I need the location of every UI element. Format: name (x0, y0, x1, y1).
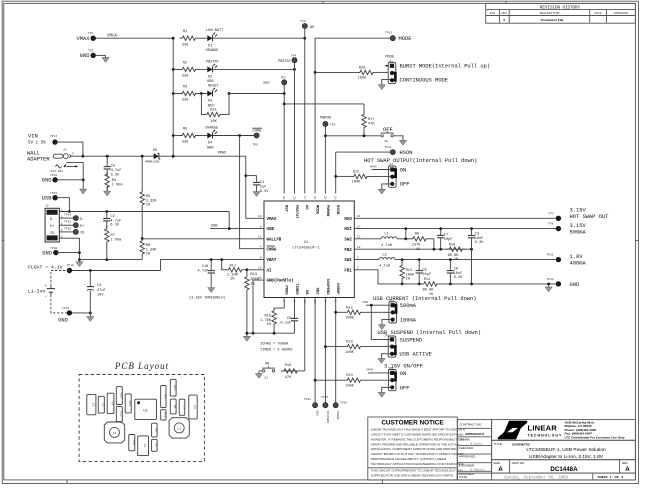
wire U1 GND paddle to ground rail (252, 280, 264, 335)
svg-text:DWG NO.: DWG NO. (512, 461, 526, 465)
svg-text:DATE:: DATE: (459, 475, 468, 479)
wire AI node to U1 pin 16 (246, 268, 265, 271)
wire TIMER pin to C6 (294, 298, 296, 319)
svg-text:TP20: TP20 (50, 247, 57, 250)
svg-text:R1: R1 (183, 30, 187, 34)
svg-text:OB2: OB2 (315, 288, 319, 296)
LED D4 CHARGE green (199, 127, 218, 151)
svg-text:R16: R16 (119, 393, 122, 399)
svg-text:6.3V: 6.3V (111, 173, 120, 177)
svg-text:SUPPLIED FOR USE WITH LINEAR T: SUPPLIED FOR USE WITH LINEAR TECHNOLOGY … (371, 474, 455, 478)
wire J2 GND pin to ground rail (59, 238, 81, 261)
svg-text:1: 1 (610, 475, 612, 479)
op IC U1 LTC3455EUF-1 body (264, 201, 354, 298)
J1 sleeve switch contact PJ1-022 (51, 162, 84, 172)
svg-text:CIRCUIT BOARD LAYOUT MAY SIGNI: CIRCUIT BOARD LAYOUT MAY SIGNIFICANTLY A… (371, 452, 464, 456)
PCB part R9 (170, 399, 176, 414)
svg-text:330: 330 (182, 43, 188, 47)
ground symbol USB rail (76, 260, 83, 267)
svg-text:TP5: TP5 (281, 77, 287, 80)
svg-text:SUSPEND: SUSPEND (326, 411, 329, 424)
wire TP2 to ground (96, 54, 106, 56)
svg-text:SW1: SW1 (344, 259, 352, 263)
test point TP3 AO (300, 20, 314, 30)
wire TP17 to adapter line (58, 142, 85, 158)
svg-text:FB2: FB2 (344, 249, 352, 253)
svg-text:SUSPEND: SUSPEND (325, 279, 329, 296)
U1 right pin names (344, 218, 352, 274)
svg-text:SW2: SW2 (344, 238, 352, 242)
PCB part R4 (152, 439, 158, 451)
test point TP22 OB2 (304, 398, 319, 416)
contract and approvals block (457, 420, 491, 480)
svg-text:PJ1-022: PJ1-022 (51, 170, 64, 173)
svg-text:AI: AI (267, 269, 272, 273)
battery Li-Ion (28, 271, 69, 313)
svg-text:3: 3 (293, 300, 296, 302)
resistor R18 47K (281, 364, 305, 380)
resistor R5 330 (173, 128, 198, 145)
svg-text:DC1448A: DC1448A (550, 466, 578, 473)
diode D5 MBRM120E (145, 149, 160, 164)
svg-text:C4: C4 (97, 284, 101, 288)
jumper JP6 3.15V enable (388, 368, 396, 391)
test point TP4 PBSTAT (278, 54, 297, 64)
jumper JP5 suspend select (384, 335, 396, 358)
svg-text:R7: R7 (110, 234, 114, 238)
test point TP24 USBHP (333, 401, 347, 419)
svg-text:47uF: 47uF (97, 289, 106, 293)
svg-text:USB: USB (363, 301, 369, 304)
svg-text:C5: C5 (91, 403, 94, 407)
PCB layout title (114, 361, 169, 371)
wire L1 output node to 3.15V rail (404, 229, 407, 241)
svg-text:DESCRIPTION: DESCRIPTION (540, 12, 560, 15)
wire JP6 pin3 to ground (382, 387, 390, 390)
svg-text:15: 15 (334, 196, 337, 200)
resistor R8 1.24K 1% (140, 238, 157, 260)
wire PWRON row to switch S2 (325, 134, 380, 137)
svg-text:HSON: HSON (400, 150, 413, 156)
svg-text:VMAX: VMAX (366, 369, 373, 372)
svg-text:CONTINUOUS MODE: CONTINUOUS MODE (400, 77, 449, 83)
svg-text:S2: S2 (385, 140, 389, 143)
PCB layout outline (79, 375, 204, 462)
LED D2 PBSTAT green (199, 60, 220, 84)
svg-text:ORANGE: ORANGE (206, 49, 219, 53)
ground symbol at JP5 (378, 356, 385, 363)
wire D2 cathode to PBSTAT bus (213, 68, 296, 71)
capacitor C8 10pF (416, 260, 431, 286)
U1 bottom pin names (284, 279, 340, 296)
svg-text:TIMER = 3 HOURS: TIMER = 3 HOURS (260, 348, 292, 352)
svg-text:C2: C2 (110, 215, 114, 219)
svg-text:WALLFB: WALLFB (267, 238, 282, 242)
note 3.35V threshold (189, 295, 226, 300)
test point TP15 MODE (385, 31, 411, 42)
resistor R4 1 Ohm (105, 171, 122, 190)
svg-text:10pF: 10pF (444, 238, 453, 242)
svg-text:23: 23 (293, 196, 296, 200)
label ON option JP3 (400, 167, 406, 173)
svg-text:10V: 10V (97, 294, 104, 298)
terminal TP18 GND (42, 174, 58, 184)
svg-text:5: 5 (334, 300, 337, 302)
svg-text:MODE: MODE (386, 55, 395, 59)
svg-text:-: - (45, 296, 48, 300)
svg-text:GND: GND (58, 317, 68, 323)
svg-text:CHARGE: CHARGE (205, 127, 218, 131)
wire PROG pin to R16 (274, 298, 284, 311)
svg-text:OFF: OFF (400, 385, 410, 391)
Linear Technology logo block (492, 420, 636, 441)
wire FB2 pin to divider (354, 248, 473, 251)
terminal TP7 hot swap out (548, 208, 609, 222)
svg-text:C6: C6 (287, 317, 291, 321)
resistor R21 10K parallel with D3 (201, 94, 229, 124)
svg-text:ADAPTER: ADAPTER (27, 156, 50, 162)
svg-text:L2: L2 (113, 432, 117, 435)
svg-text:2.10M: 2.10M (227, 273, 238, 277)
svg-text:GND(Paddle): GND(Paddle) (267, 279, 294, 284)
svg-text:HOT SWAP OUT: HOT SWAP OUT (570, 214, 610, 220)
PCB part C10 (129, 435, 135, 451)
capacitor C9 10uF 6.3V (447, 260, 463, 284)
svg-text:6.3V: 6.3V (260, 190, 269, 194)
svg-text:TP8: TP8 (548, 223, 554, 226)
svg-text:FB1: FB1 (344, 269, 352, 273)
note charge current and timer (260, 343, 292, 353)
svg-text:MODE: MODE (315, 205, 319, 215)
wire TP18 to sleeve ground line (58, 179, 83, 181)
svg-text:LINEAR: LINEAR (528, 424, 558, 433)
wire HSI pin 13 3.15V rail (354, 227, 556, 230)
U1 top pin names (284, 205, 340, 219)
svg-text:23: 23 (313, 300, 316, 304)
svg-text:TECHNOLOGY APPLICATIONS ENGINE: TECHNOLOGY APPLICATIONS ENGINEERING FOR … (371, 462, 465, 466)
svg-text:A: A (498, 466, 503, 473)
svg-text:1.8V: 1.8V (570, 254, 584, 260)
svg-text:ICHRG = 700mA: ICHRG = 700mA (260, 343, 289, 347)
svg-text:PCB Layout: PCB Layout (114, 361, 169, 371)
LED D3 RESET red (199, 85, 231, 109)
LED D1 LOW BATT orange (199, 29, 225, 53)
svg-text:R5: R5 (183, 128, 187, 132)
svg-text:R8: R8 (154, 428, 157, 432)
wire D1 cathode to AO bus (213, 37, 307, 40)
svg-text:LTC3455EUF-1: LTC3455EUF-1 (292, 247, 320, 251)
capacitor C4 47uF 10V (84, 271, 106, 315)
U1 top pin numbers (282, 196, 337, 200)
svg-text:MBRM120E: MBRM120E (145, 161, 160, 164)
PCB part L2 inductor (104, 422, 124, 443)
wire S2 to ground (393, 136, 403, 138)
svg-text:4.7uF: 4.7uF (198, 270, 209, 274)
svg-text:1 Ohm: 1 Ohm (112, 182, 123, 187)
label USB CURRENT header (373, 296, 477, 302)
svg-text:47K: 47K (285, 376, 292, 380)
label SUSPEND option (400, 337, 423, 343)
svg-text:C1: C1 (260, 181, 264, 185)
svg-text:237K: 237K (412, 243, 421, 247)
svg-text:C3: C3 (193, 405, 196, 409)
svg-text:VMAX: VMAX (370, 166, 377, 169)
svg-text:D+: D+ (50, 225, 54, 229)
ground symbol output rail (545, 285, 552, 292)
wire HSOB bus to U1 pin 15 (334, 152, 337, 193)
svg-text:C2: C2 (101, 403, 104, 407)
terminal TP11 1.8V 400mA (547, 254, 587, 267)
svg-text:4.7uH: 4.7uH (381, 244, 392, 248)
svg-text:HSOB: HSOB (335, 205, 339, 215)
ground symbol below C4 (87, 315, 94, 322)
test point TP23 SUSPEND (321, 396, 329, 423)
svg-text:VBUS: VBUS (48, 212, 55, 215)
PCB part C3 (189, 395, 197, 419)
svg-text:HSI: HSI (344, 228, 352, 232)
svg-text:USBHP: USBHP (336, 411, 339, 420)
svg-text:VMAX: VMAX (107, 35, 118, 39)
svg-text:U1: U1 (304, 241, 309, 245)
connector J1 wall adapter jack (27, 148, 74, 162)
svg-text:6.3V: 6.3V (110, 224, 119, 228)
svg-text:D-: D- (50, 218, 54, 222)
svg-text:100K: 100K (345, 351, 354, 355)
svg-text:C9: C9 (454, 267, 458, 271)
svg-text:100K: 100K (358, 77, 367, 81)
PCB part R10 (170, 379, 176, 396)
svg-text:TP7: TP7 (548, 212, 554, 215)
wire TP20 to ground rail (58, 252, 79, 254)
wire USB area ground rail (79, 258, 142, 261)
net label USB at U1 USB pin (210, 225, 229, 229)
svg-text:APPLICATION. COMPONENT SUBSTI: APPLICATION. COMPONENT SUBSTITUTION AND … (371, 447, 458, 451)
PCB part R11b (161, 410, 167, 420)
svg-text:AO: AO (304, 205, 308, 210)
svg-text:LOW BATT: LOW BATT (206, 29, 224, 33)
svg-text:D+: D+ (80, 225, 84, 229)
capacitor C7 10pF (437, 229, 452, 251)
ground symbol at TP2 (102, 55, 109, 62)
svg-text:R23: R23 (346, 341, 352, 345)
switch S1 ON pushbutton (262, 362, 275, 379)
label BURST MODE option (400, 64, 491, 70)
svg-text:1uF: 1uF (260, 185, 266, 189)
label USB ACTIVE option (400, 352, 432, 358)
svg-text:D3: D3 (208, 100, 212, 104)
svg-text:0: 0 (503, 18, 505, 22)
svg-text:AO: AO (310, 26, 314, 30)
ground symbol below R4 (104, 189, 111, 196)
svg-text:TP11: TP11 (547, 254, 554, 257)
svg-text:7: 7 (282, 300, 285, 302)
ground symbol at JP3 (378, 187, 385, 194)
svg-text:20: 20 (282, 196, 285, 200)
svg-text:C10: C10 (202, 265, 208, 269)
svg-text:SCHEMATIC: SCHEMATIC (512, 442, 531, 446)
svg-text:RESET: RESET (208, 85, 220, 89)
svg-text:R20: R20 (359, 66, 365, 70)
ground symbol below J1 (80, 187, 87, 194)
svg-text:REV: REV (502, 12, 508, 15)
resistor R6 3.32K 1% (140, 156, 157, 238)
svg-text:ON: ON (265, 362, 269, 366)
svg-text:R15: R15 (353, 170, 359, 174)
capacitor C10 4.7uF (198, 260, 215, 286)
svg-text:10uF: 10uF (454, 272, 463, 276)
wire OB2 pin to TP22 (314, 298, 317, 403)
svg-text:ECO: ECO (490, 12, 496, 15)
wire D4 cathode to CHRG node (213, 134, 255, 137)
svg-text:CUSTOMER NOTICE: CUSTOMER NOTICE (381, 419, 444, 426)
svg-text:R3: R3 (183, 86, 187, 90)
svg-text:4.7uF: 4.7uF (111, 169, 122, 173)
revision history table (486, 3, 636, 23)
svg-text:C3: C3 (475, 232, 479, 236)
svg-text:C10: C10 (132, 440, 135, 446)
wire wall adapter line to diode D5 (72, 155, 154, 158)
svg-text:LTC Confidential-For Customer: LTC Confidential-For Customer Use Only (565, 436, 625, 440)
svg-text:GND: GND (49, 238, 55, 241)
svg-text:R2: R2 (183, 61, 187, 65)
terminal TP20 GND (42, 247, 58, 257)
label 500mA option (400, 303, 417, 309)
wire J1 sleeve to ground (82, 162, 85, 187)
wire PBSTAT bus to U1 pin 23 (294, 63, 296, 194)
resistor R24 100K (315, 374, 390, 388)
PCB part C4 (107, 393, 114, 413)
svg-text:USB: USB (42, 196, 52, 202)
svg-text:4.7uF: 4.7uF (110, 219, 121, 223)
ground symbol below C10 (208, 286, 215, 293)
svg-text:L1: L1 (177, 427, 181, 430)
svg-text:R18: R18 (285, 364, 291, 368)
svg-text:TP13: TP13 (62, 307, 69, 310)
svg-text:3.32K: 3.32K (146, 199, 158, 203)
wire AO bus to U1 pin 17 (304, 29, 306, 194)
wire HSO pin 14 to hot swap out (354, 217, 556, 219)
svg-text:CONTRACT NO.: CONTRACT NO. (459, 422, 482, 426)
svg-text:UB: UB (304, 290, 308, 295)
svg-text:CIRCUIT THAT MEETS CUSTOMER-SU: CIRCUIT THAT MEETS CUSTOMER-SUPPLIED SPE… (371, 433, 464, 437)
net label USB stub to JP4 (363, 301, 391, 307)
date and sheet row (457, 473, 635, 480)
svg-text:C4: C4 (111, 402, 114, 406)
svg-text:S1: S1 (265, 377, 269, 380)
svg-text:L2: L2 (382, 253, 386, 257)
svg-text:500mA: 500mA (570, 230, 587, 236)
svg-text:TP2: TP2 (88, 49, 94, 52)
wire 1.8V rail to TP11 (401, 258, 556, 261)
svg-text:PBSTAT: PBSTAT (206, 60, 220, 64)
svg-text:LINEAR TECHNOLOGY HAS MADE A B: LINEAR TECHNOLOGY HAS MADE A BEST EFFORT… (371, 428, 466, 432)
resistor R15 100K (336, 170, 390, 184)
svg-text:TP18: TP18 (50, 174, 57, 177)
svg-text:DRAWN: DRAWN (459, 437, 470, 441)
svg-text:1.78K: 1.78K (260, 319, 272, 323)
test point TP16 ID (59, 227, 84, 235)
svg-text:R17: R17 (368, 118, 374, 122)
svg-text:10K: 10K (210, 120, 217, 124)
svg-text:TECHNOLOGY: TECHNOLOGY (528, 434, 563, 438)
customer notice box (368, 417, 466, 480)
svg-text:R13: R13 (250, 273, 256, 277)
svg-text:8: 8 (260, 225, 262, 228)
svg-text:500mA: 500mA (400, 303, 417, 309)
svg-text:22: 22 (323, 196, 326, 200)
label 3.15V ON/OFF header (384, 364, 423, 370)
test point TP5 RST (264, 77, 287, 87)
PCB part C7 (179, 399, 185, 415)
wire WALLFB node to U1 pin 11 (141, 237, 264, 240)
svg-text:Sunday, September 06, 2009: Sunday, September 06, 2009 (504, 475, 568, 480)
svg-text:ID: ID (50, 232, 54, 236)
svg-text:80.6K: 80.6K (448, 254, 460, 258)
resistor R16 1.78K 1% (260, 308, 276, 333)
svg-text:RST: RST (264, 82, 271, 86)
svg-text:R4: R4 (112, 179, 116, 183)
ground symbol analog rail (243, 334, 250, 341)
svg-text:TP19: TP19 (50, 192, 57, 195)
svg-text:MODE: MODE (399, 36, 412, 42)
resistor R3 330 (173, 86, 198, 103)
svg-text:OB2: OB2 (316, 411, 319, 417)
svg-text:TP24: TP24 (340, 401, 347, 404)
svg-text:CHRG: CHRG (267, 248, 277, 252)
resistor R1 330 (180, 30, 199, 47)
svg-text:17: 17 (303, 196, 306, 200)
resistor R7 1 Ohm (105, 226, 122, 260)
wire FB1 pin to divider node (354, 270, 421, 284)
svg-text:ON: ON (400, 371, 406, 377)
svg-text:6.3V: 6.3V (475, 241, 484, 245)
svg-text:ID: ID (80, 232, 84, 236)
svg-text:CHECKED: CHECKED (459, 446, 475, 450)
resistor R11 2.10M 1% (222, 260, 247, 282)
svg-text:10uF: 10uF (475, 237, 484, 241)
svg-text:VBAT: VBAT (267, 259, 277, 263)
wire TP19 to VBUS line (58, 198, 71, 213)
svg-text:R12: R12 (406, 269, 412, 273)
U1 left pin numbers (258, 215, 262, 280)
svg-text:18: 18 (357, 246, 361, 249)
svg-text:C5: C5 (111, 165, 115, 169)
svg-text:TP17: TP17 (50, 135, 57, 138)
svg-text:R24: R24 (346, 374, 352, 378)
svg-text:Li-Ion: Li-Ion (28, 288, 45, 294)
svg-text:USB: USB (267, 228, 275, 232)
resistor R22 100K (336, 306, 391, 320)
svg-text:R21: R21 (210, 109, 216, 113)
label OFF option JP6 (400, 385, 410, 391)
svg-text:100K: 100K (345, 384, 354, 388)
svg-text:C7: C7 (444, 233, 448, 237)
label USB SUSPEND header (378, 330, 482, 336)
svg-text:APPROVED: APPROVED (614, 12, 629, 15)
wire USB net JP4 to JP5 (371, 305, 390, 339)
svg-text:3: 3 (357, 256, 359, 259)
svg-text:R14: R14 (424, 278, 430, 282)
svg-text:R16: R16 (265, 314, 271, 318)
svg-text:TP10: TP10 (67, 264, 74, 267)
svg-text:21: 21 (313, 196, 316, 200)
svg-text:11: 11 (258, 236, 262, 239)
svg-text:330: 330 (182, 75, 188, 79)
svg-text:1 Ohm: 1 Ohm (110, 237, 121, 242)
svg-text:R11: R11 (128, 401, 131, 407)
capacitor C2 4.7uF 6.3V (103, 212, 121, 228)
svg-text:TP6: TP6 (330, 124, 336, 127)
